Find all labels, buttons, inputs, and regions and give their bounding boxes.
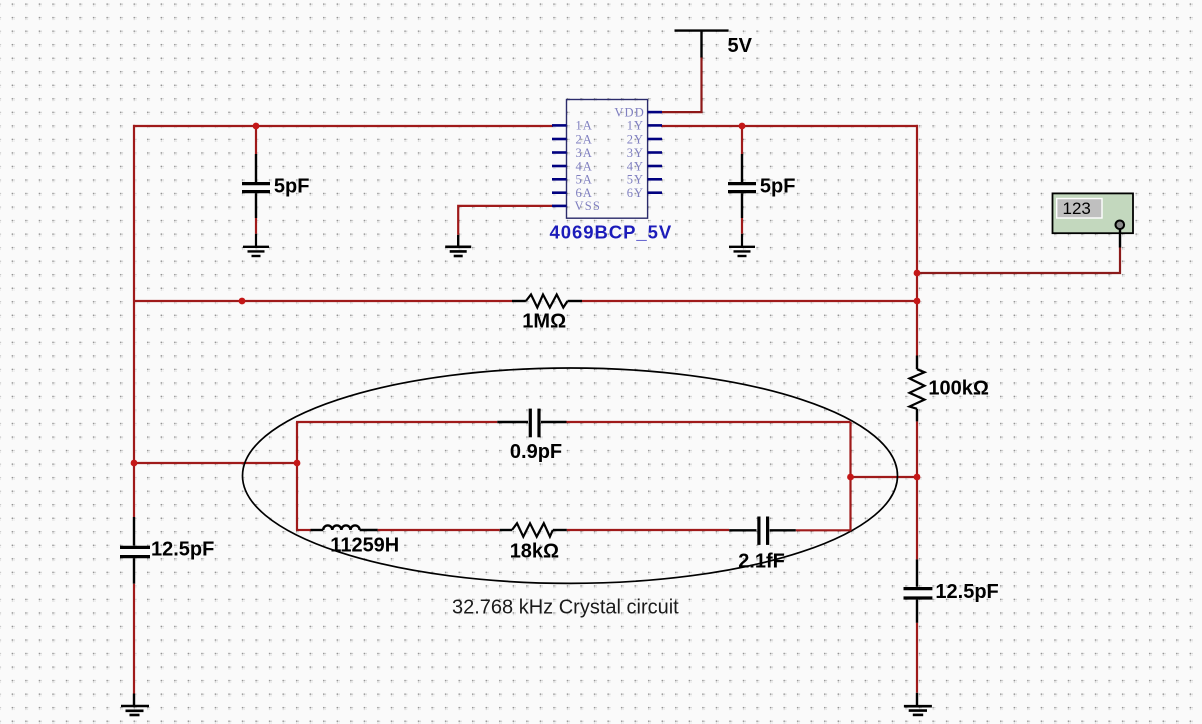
label: 1M ohm	[522, 310, 566, 332]
crystal loop: right vertical edge	[849, 422, 851, 531]
svg-text:5V: 5V	[728, 35, 753, 57]
svg-text:3A: 3A	[576, 146, 593, 160]
label: 12.5pF (right)	[935, 581, 998, 603]
svg-text:VDD: VDD	[614, 105, 645, 119]
inductor L1 11259H (bottom of loop)	[311, 525, 378, 530]
svg-text:VSS: VSS	[575, 199, 602, 213]
IC U1 pin names	[575, 105, 646, 213]
svg-text:6Y: 6Y	[627, 186, 644, 200]
capacitor C4 2.1fF (bottom of loop)	[729, 517, 796, 545]
junction dot at right 5pF tap	[739, 123, 746, 130]
label: 12.5pF (left)	[151, 538, 214, 560]
wire: top-right horizontal net from IC pin 1Y to right rail	[661, 125, 918, 127]
label: 4069BCP_5V	[550, 222, 673, 243]
wire: probe net from right rail to probe terminal	[917, 247, 1120, 273]
svg-text:4A: 4A	[576, 159, 593, 173]
svg-text:2A: 2A	[576, 132, 593, 146]
ground under left 5pF	[243, 234, 269, 256]
crystal loop: bottom edge segments	[296, 529, 851, 531]
junction dot at crystal loop right node	[847, 474, 854, 481]
svg-text:123: 123	[1063, 199, 1091, 218]
crystal loop red wiring: left vertical edge	[296, 422, 298, 530]
svg-text:18kΩ: 18kΩ	[510, 541, 559, 563]
label: 5pF (right)	[760, 175, 796, 197]
junction dot at left 5pF tap	[253, 123, 260, 130]
wire: middle horizontal net (1M row) right part	[582, 300, 917, 302]
capacitor C2 5pF (right)	[728, 126, 756, 234]
svg-text:5A: 5A	[576, 173, 593, 187]
label: 100k ohm	[928, 378, 989, 400]
ellipse annotation around crystal model	[243, 368, 898, 583]
svg-text:0.9pF: 0.9pF	[510, 441, 562, 463]
crystal loop: top edge left of C3	[296, 421, 497, 423]
junction dot at right rail / crystal exit	[914, 474, 921, 481]
wire: top-left horizontal net from left rail to IC pin 1A	[133, 125, 553, 127]
svg-text:1MΩ: 1MΩ	[522, 310, 566, 332]
ground under right 5pF	[729, 234, 755, 256]
power source V1 5V	[675, 31, 729, 58]
svg-text:11259H: 11259H	[330, 535, 399, 557]
crystal loop: top edge right of C3	[567, 421, 851, 423]
label: 18k ohm	[510, 541, 559, 563]
junction dot at left rail / crystal feed	[131, 460, 138, 467]
measurement probe XMM1 (123 readout)	[1053, 193, 1134, 247]
svg-text:5Y: 5Y	[627, 173, 644, 187]
ground at bottom of right rail	[904, 693, 932, 715]
svg-text:12.5pF: 12.5pF	[935, 581, 998, 603]
junction dot at right rail / probe net	[914, 270, 921, 277]
IC U1 pin stubs right (VDD, 1Y-6Y)	[648, 112, 662, 193]
svg-text:5pF: 5pF	[274, 175, 310, 197]
wire: right exit of crystal loop to right rail	[851, 476, 918, 478]
label: 32.768 kHz Crystal circuit caption	[452, 596, 679, 618]
wire: VSS net from IC to ground	[458, 206, 553, 235]
label: 2.1fF	[738, 551, 785, 573]
ground under VSS	[445, 235, 471, 256]
svg-text:32.768 kHz Crystal circuit: 32.768 kHz Crystal circuit	[452, 596, 679, 618]
svg-text:1A: 1A	[576, 119, 593, 133]
svg-text:100kΩ: 100kΩ	[928, 378, 989, 400]
svg-text:2.1fF: 2.1fF	[738, 551, 785, 573]
label: 11259H	[330, 535, 399, 557]
wire: right vertical rail between 100k and 12.5pF	[916, 421, 918, 559]
svg-text:6A: 6A	[576, 186, 593, 200]
wire: left vertical rail upper segment	[133, 125, 135, 517]
svg-text:4069BCP_5V: 4069BCP_5V	[550, 222, 673, 243]
svg-text:2Y: 2Y	[627, 132, 644, 146]
label: 5V	[728, 35, 753, 57]
svg-text:4Y: 4Y	[627, 159, 644, 173]
wire: right vertical rail between 12.5pF and ground	[916, 623, 918, 693]
svg-text:1Y: 1Y	[627, 119, 644, 133]
wire: VDD net from IC to 5V source	[660, 57, 702, 113]
wire: left feed into crystal loop	[134, 462, 297, 464]
IC U1 pin stubs left (1A-6A, VSS)	[552, 125, 567, 205]
resistor R3 18k (bottom of loop)	[500, 523, 567, 536]
svg-text:5pF: 5pF	[760, 175, 796, 197]
capacitor C3 0.9pF (series, top of loop)	[497, 409, 566, 438]
wire: left vertical rail lower segment	[133, 584, 135, 694]
junction dot on 1M row (left)	[239, 298, 246, 305]
capacitor C1 5pF (left)	[242, 126, 270, 234]
resistor R1 1M (horizontal)	[512, 295, 582, 308]
wire: middle horizontal net (1M row) left part	[134, 300, 512, 302]
label: 0.9pF	[510, 441, 562, 463]
resistor R2 100k (vertical, right rail)	[910, 356, 925, 422]
capacitor C6 12.5pF (right rail)	[904, 559, 933, 622]
label: 5pF (left)	[274, 175, 310, 197]
junction dot at right rail / 1M row	[914, 298, 921, 305]
IC U1 4069BCP_5V body	[567, 100, 648, 219]
wire: right vertical rail top segment (from 1Y corner down to 100k)	[916, 125, 918, 356]
svg-text:3Y: 3Y	[627, 146, 644, 160]
ground at bottom of left rail	[121, 694, 149, 716]
svg-text:12.5pF: 12.5pF	[151, 538, 214, 560]
capacitor C5 12.5pF (left rail)	[120, 517, 150, 584]
junction dot at crystal loop left node	[294, 460, 301, 467]
